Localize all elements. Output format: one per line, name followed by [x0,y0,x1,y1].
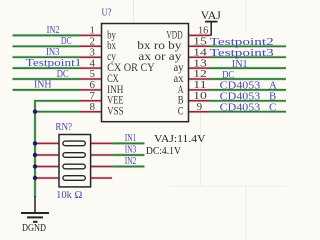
wire ground bus vertical [33,112,36,197]
svg-text:10k Ω: 10k Ω [56,190,82,201]
svg-text:C: C [178,106,184,118]
junction node RN2 [33,153,37,157]
wire pin11 CD4053 A [210,88,286,91]
wire pin9 CD4053 C [210,110,286,113]
junction node RN1 [33,141,37,145]
svg-text:IN3: IN3 [125,144,137,155]
wire RN to IN1 [112,142,144,145]
pin 12 [189,78,211,81]
svg-text:IN3: IN3 [46,47,60,58]
pin 16 [189,34,212,37]
pin 5 [80,78,102,81]
wire RN to IN2 [112,165,144,168]
pin 7 [80,99,102,102]
grid line vertical x=133.5 [133,0,135,24]
svg-text:Testpoint1: Testpoint1 [26,58,82,69]
pin 13 [189,67,211,70]
pin 2 [80,45,102,48]
wire pin4 Testpoint1 [13,66,81,69]
resistor element 2 [63,153,85,158]
svg-text:VSS: VSS [107,106,124,118]
svg-text:VAJ:11.4V: VAJ:11.4V [154,133,206,145]
op IC body U? [102,24,189,122]
pin 4 [80,67,102,70]
wire VSS pin8 [35,110,80,113]
ground DGND [21,196,49,234]
wire pin6 INH [13,88,81,91]
svg-text:DC: DC [57,69,69,80]
svg-text:8: 8 [90,101,96,113]
pin 11 [189,88,211,91]
wire pin14 Testpoint3 [210,56,286,59]
svg-text:DC: DC [61,36,72,47]
resistor element 4 [63,176,85,181]
wire pin12 DC [210,77,286,80]
junction node RN4 [33,176,37,180]
wire pin5 DC [13,77,81,80]
wire pin1 IN2 [13,34,81,37]
svg-text:C: C [269,102,276,114]
grid line vertical x=246 [245,0,247,30]
pin 14 [189,56,211,59]
pin 1 [80,34,102,37]
wire pin3 IN3 [13,56,81,59]
wire pin2 DC [13,45,81,48]
RN pins left stubs [35,142,59,145]
resistor element 1 [63,141,85,146]
wire pin13 IN1 [210,66,286,69]
wire VEE pin7 to bus [35,101,80,112]
power port VAJ [201,10,222,35]
pin 6 [80,88,102,91]
svg-text:IN2: IN2 [125,156,137,167]
pin 15 [189,45,211,48]
wire pin10 CD4053 B [210,99,286,102]
svg-text:IN2: IN2 [47,25,60,36]
RN pins right stubs [91,142,113,145]
svg-text:DC:4.1V: DC:4.1V [146,145,181,157]
svg-text:INH: INH [34,80,52,91]
resistor pack RN? body [59,135,91,187]
pin 10 [189,99,211,102]
resistor element 3 [63,164,85,169]
svg-text:RN?: RN? [55,122,72,133]
svg-text:VAJ: VAJ [201,10,222,22]
svg-text:IN1: IN1 [232,58,248,70]
svg-text:CD4053: CD4053 [220,102,261,114]
svg-text:U?: U? [102,8,112,19]
svg-text:DGND: DGND [22,222,46,234]
junction node RN3 [33,164,37,168]
pin 3 [80,56,102,59]
wire RN to IN3 [112,153,144,156]
pin 8 [80,110,102,113]
svg-text:IN1: IN1 [125,133,137,144]
wire pin15 Testpoint2 [210,45,286,48]
grid line vertical x=200.5 [200,103,202,186]
junction node VSS [33,110,37,114]
pin 9 [189,110,211,113]
svg-text:9: 9 [197,101,203,113]
grid line horizontal y=186 [170,185,286,187]
